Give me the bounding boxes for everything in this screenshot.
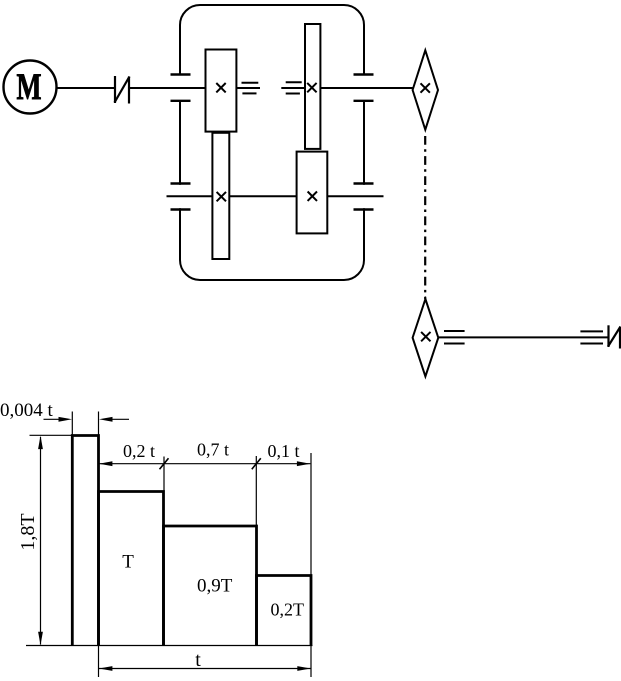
- svg-text:t: t: [195, 649, 201, 671]
- shaft I: motor to coupling: [57, 87, 115, 89]
- gear Z2 (wheel, shaft II): [212, 133, 229, 259]
- svg-text:0,004 t: 0,004 t: [0, 400, 54, 421]
- bar T: [99, 492, 164, 646]
- baseline (time axis): [26, 645, 313, 647]
- shaft III: gear Z4 to sprocket: [320, 87, 413, 89]
- gear Z4 (wheel, shaft III): [305, 24, 320, 149]
- dimension t (bottom): [99, 666, 311, 671]
- shaft I: coupling to gear Z1: [130, 87, 206, 89]
- bar 1.8T: [72, 436, 98, 646]
- bearing right wall shaft II: [354, 184, 374, 210]
- svg-text:M: M: [17, 67, 42, 108]
- bearing left wall shaft I: [171, 75, 191, 101]
- motor M: [4, 61, 57, 114]
- svg-text:0,9T: 0,9T: [197, 576, 233, 597]
- shaft III (output) stub before gear Z4: [281, 87, 305, 89]
- shaft end symbol, shaft I: [242, 83, 259, 94]
- shaft IV: sprocket 2 to coupling: [438, 336, 608, 338]
- extension lines: [30, 412, 312, 678]
- svg-text:1,8T: 1,8T: [17, 513, 39, 550]
- svg-text:0,1 t: 0,1 t: [267, 441, 299, 461]
- bar 0.9T: [164, 526, 257, 646]
- shaft end symbol, shaft III left end: [286, 82, 302, 93]
- svg-text:0,7 t: 0,7 t: [197, 440, 229, 460]
- chain (dash-dot line): [424, 136, 426, 299]
- sprocket 2 (driven): [413, 299, 439, 377]
- gearbox housing: [176, 5, 368, 280]
- shaft I stub after gear Z1: [236, 87, 260, 89]
- bearing right wall shaft I: [354, 75, 374, 101]
- bearing left wall shaft II: [171, 184, 191, 210]
- shaft II segments: [167, 195, 384, 197]
- dimension line 0,2t 0,7t 0,1t: [99, 458, 311, 469]
- shaft end symbol, shaft IV at right coupling: [580, 331, 603, 343]
- coupling (elastic, at motor): [115, 76, 130, 104]
- dimension 0,004t: [44, 417, 130, 422]
- shaft end symbol, shaft IV at sprocket: [444, 331, 465, 344]
- svg-text:T: T: [122, 552, 134, 573]
- dimension 1,8T: [38, 436, 43, 646]
- sprocket 1 (driving): [413, 50, 438, 129]
- coupling (right, to working machine): [608, 325, 621, 348]
- gear Z3 (pinion, shaft II): [297, 152, 328, 234]
- gear Z1 (pinion, shaft I): [206, 50, 237, 132]
- svg-text:0,2T: 0,2T: [271, 600, 305, 620]
- bar 0.2T: [257, 576, 312, 646]
- svg-text:0,2 t: 0,2 t: [123, 441, 155, 461]
